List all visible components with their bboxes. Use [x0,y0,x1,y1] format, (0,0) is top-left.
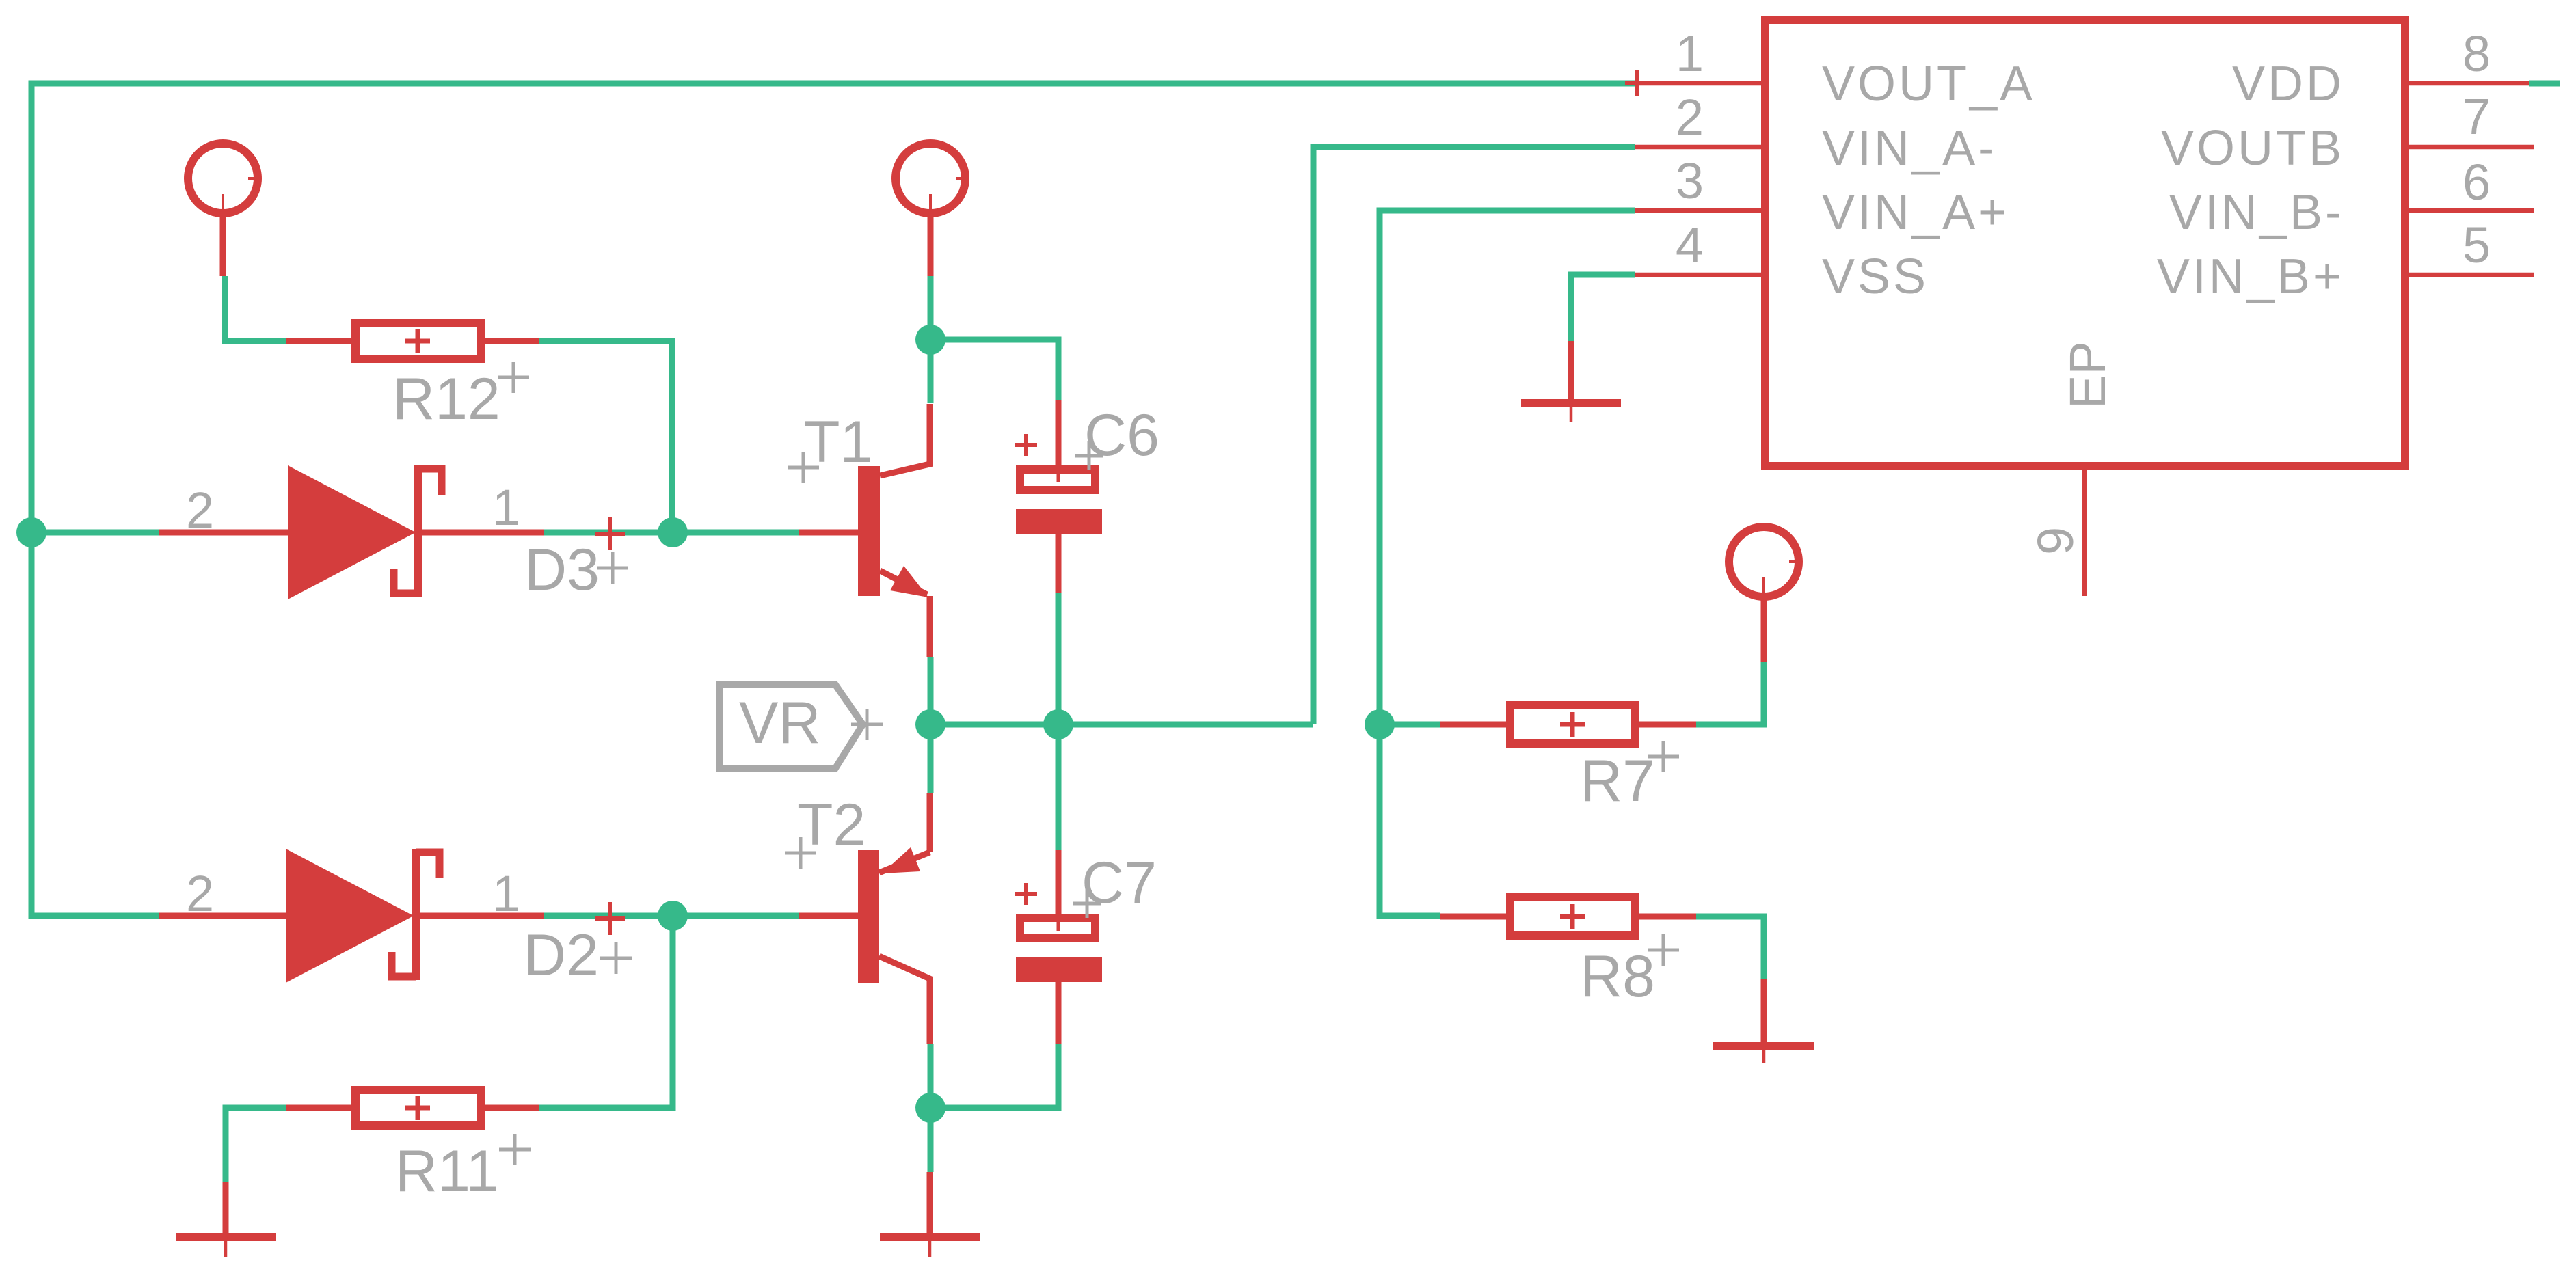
svg-text:VIN_A+: VIN_A+ [1822,185,2009,240]
svg-text:1: 1 [492,865,520,922]
junction node A (left rail / D3) [16,517,46,547]
text origin cross T1 [788,452,819,483]
port P2 (circle above T1) [896,144,969,276]
ground GND1 (VSS) [1521,341,1621,422]
svg-text:6: 6 [2463,154,2491,210]
plus sign C7 [1015,883,1037,905]
wire T1 collector below node [928,340,934,403]
origin cross D3 [595,517,625,550]
origin cross VR flag [851,709,883,740]
svg-text:2: 2 [186,482,214,539]
svg-text:VIN_B-: VIN_B- [2169,185,2344,240]
svg-text:R12: R12 [392,366,500,432]
pin 4 VSS stub [1635,273,1761,277]
svg-text:R8: R8 [1580,944,1655,1009]
junction node C (D2 / R11) [658,901,688,931]
wire T1 emitter to VR node [928,657,934,724]
svg-text:4: 4 [1676,217,1704,273]
ground GND2 (below R8) [1713,979,1814,1063]
text origin cross C7 [1073,889,1101,918]
resistor R8 [1440,897,1696,936]
plus sign C6 [1015,434,1037,456]
svg-text:2: 2 [1676,89,1704,146]
svg-text:D3: D3 [524,537,600,603]
svg-text:C6: C6 [1084,403,1159,468]
ground GND4 (below R11) [176,1182,276,1257]
wire D3 cathode to T1 base [544,530,799,536]
svg-text:7: 7 [2463,88,2491,145]
wire T2 emitter through gnd node [928,1044,934,1172]
pin 3 VIN_A+ stub [1635,208,1761,213]
pin 9 EP stub [2082,470,2087,596]
VR net flag [720,685,863,768]
svg-text:VR: VR [739,690,820,756]
transistor T1 (NPN) [799,404,930,657]
svg-text:T1: T1 [804,409,872,475]
pin 8 VDD stub [2409,81,2529,86]
wire C7 top green [1056,724,1062,850]
junction node D (T1 collector / C6) [915,325,945,355]
pin 1 VOUT_A stub [1635,81,1761,86]
svg-text:R11: R11 [395,1139,498,1204]
svg-text:1: 1 [1676,25,1704,82]
wire R7 left from node [1380,722,1440,728]
wire R8 right down to gnd [1696,916,1764,979]
port P1 (circle top-left) [188,144,261,276]
origin cross D2 [595,902,625,935]
wire C7 bottom to gnd node [930,1044,1058,1108]
text origin cross D2 [600,942,632,974]
wire C6 bottom to VR row [1056,593,1062,724]
wire D2 cathode to T2 base [544,913,799,919]
resistor R12 [286,323,539,359]
svg-text:VIN_B+: VIN_B+ [2157,249,2344,304]
pin 7 VOUTB stub [2409,145,2534,150]
svg-text:9: 9 [2027,527,2084,555]
wire R11 right up to D2 node [539,916,673,1108]
svg-text:8: 8 [2463,25,2491,82]
svg-text:VIN_A-: VIN_A- [1822,121,1997,176]
svg-text:5: 5 [2463,217,2491,273]
svg-text:C7: C7 [1082,850,1157,916]
pin 5 VIN_B+ stub [2409,273,2534,277]
port P3 (circle above R7) [1729,527,1802,662]
pin 2 VIN_A- stub [1635,145,1761,150]
wire R12 left to port [225,276,286,341]
resistor R11 [286,1090,539,1126]
wire VSS pin4 [1571,275,1635,341]
svg-text:3: 3 [1676,152,1704,209]
capacitor C6 (polarized) [1016,400,1102,593]
text origin cross T2 [785,837,816,869]
wire T1 collector port stub [928,276,934,340]
IC U1 box [1765,20,2405,466]
svg-text:D2: D2 [524,923,599,988]
junction node F (pin3 / R7 / R8) [1365,709,1395,739]
svg-text:VSS: VSS [1822,249,1929,304]
junction node G (T2 emitter / C7 / gnd) [915,1093,945,1123]
diode D3 (schottky) [159,465,544,599]
text origin cross R12 [498,362,529,393]
svg-text:EP: EP [2059,341,2116,409]
wire pin8 VDD stub [2529,81,2560,87]
svg-text:2: 2 [186,865,214,922]
svg-text:T2: T2 [797,792,866,858]
resistor R7 [1440,705,1696,744]
text origin cross R7 [1648,741,1679,772]
text origin cross R8 [1648,934,1679,966]
svg-text:1: 1 [492,479,520,536]
pin 1 connection cross [1625,70,1648,96]
wire net VCC1 left vertical + top horizontal to pin1 [31,83,1635,916]
junction node B (D3 / R12) [658,517,688,547]
text origin cross R11 [499,1134,531,1165]
svg-text:R7: R7 [1580,748,1655,814]
wire R11 left corner [226,1108,286,1182]
transistor T2 (PNP) [799,793,930,1044]
pin 6 VIN_B- stub [2409,208,2534,213]
svg-text:VOUTB: VOUTB [2161,121,2344,176]
diode D2 (schottky) [159,849,544,983]
svg-text:VOUT_A: VOUT_A [1822,57,2035,111]
junction node E (C6 / C7 / VR row) [1043,709,1073,739]
ground GND3 (below T2) [880,1172,980,1257]
svg-text:VDD: VDD [2232,57,2344,111]
junction node VR (T1 emitter / T2 collector) [915,709,945,739]
wire T2 collector green [928,724,934,793]
text origin cross D3 [597,552,628,584]
text origin cross C6 [1075,441,1103,470]
wire R12 right down to D3 node [539,341,672,532]
wire pin3 vertical through R7 node to R8 [1380,210,1635,916]
wire VR row horizontal [930,722,1313,728]
wire R7 right up to port [1696,662,1764,724]
wire D3 anode from left rail [31,530,159,536]
wire VR row up to pin2 [1313,147,1635,724]
wire collector node to C6 [930,340,1058,400]
capacitor C7 (polarized) [1016,850,1102,1044]
